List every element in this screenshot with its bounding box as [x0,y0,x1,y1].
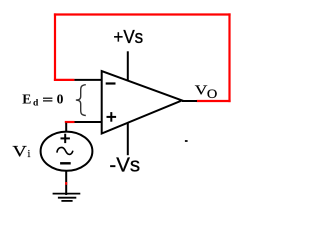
svg-text:O: O [207,87,218,101]
svg-text:V: V [12,142,26,160]
op-amp inverting input marker (-) [106,82,116,84]
wire non-inverting input (black) [75,121,102,123]
stray mark [185,140,188,142]
op-amp U1 triangle [102,71,182,134]
wire inverting input (black) [74,79,101,81]
source Vi AC source ellipse [41,132,93,171]
wire red feedback left vertical segment [54,13,56,81]
source polarity plus [61,134,70,143]
wire red feedback right vertical segment [228,13,230,102]
svg-text:i: i [28,149,31,160]
wire red stub at non-inverting input corner [65,121,75,123]
source polarity minus [60,162,71,164]
brace for Ed differential input [76,85,86,116]
wire from non-inverting input corner down to source Vi [65,123,67,133]
source sine symbol [57,147,73,154]
wire +Vs supply lead [127,51,129,80]
wire source to ground [65,171,67,195]
wire red mark on ground lead [65,182,67,185]
wire red output segment to Vo node [197,100,231,102]
equals sign of Ed = 0 [43,98,52,101]
op-amp non-inverting input marker (+) [107,112,117,122]
svg-text:-Vs: -Vs [109,154,140,177]
ground symbol [53,194,81,201]
wire red stub at inverting input [54,79,75,81]
wire output (black) from op-amp apex [182,100,197,102]
wire -Vs supply lead [127,123,129,156]
wire red feedback top segment [54,13,231,15]
svg-text:+Vs: +Vs [113,26,143,47]
